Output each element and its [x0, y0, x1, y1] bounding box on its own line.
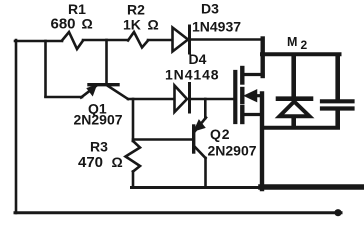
wire bottom long rail: [15, 211, 341, 214]
wire Q2 base horizontal: [133, 138, 192, 141]
diode freewheel top lead: [291, 56, 296, 95]
resistor R3: [126, 141, 141, 172]
wire Q2 collector vertical: [204, 158, 207, 187]
transistor Q1: [81, 40, 128, 99]
wire emitter horizontal: [46, 96, 83, 99]
diode D3: [173, 26, 190, 53]
svg-text:Ω: Ω: [148, 17, 159, 33]
mosfet M2: [235, 68, 263, 122]
wire source vertical: [260, 94, 264, 190]
wire top rail left segment: [15, 40, 62, 43]
wire thick bottom right rail: [261, 184, 364, 190]
wire junction drop to R3: [132, 99, 135, 141]
svg-text:2N2907: 2N2907: [74, 112, 123, 128]
diode freewheel: [278, 99, 311, 117]
capacitor C: [322, 101, 353, 108]
wire left vertical rail: [15, 40, 18, 213]
svg-text:2N2907: 2N2907: [208, 143, 257, 159]
svg-text:2: 2: [301, 38, 308, 52]
wire gate horizontal D4 to gate: [191, 98, 233, 101]
diode freewheel bottom lead: [291, 117, 296, 127]
svg-text:1N4937: 1N4937: [192, 19, 241, 35]
svg-text:680: 680: [51, 16, 76, 33]
svg-text:Ω: Ω: [82, 16, 93, 32]
wire top rail D3 to drain corner: [191, 38, 263, 41]
svg-text:Ω: Ω: [112, 154, 123, 170]
label M2: [287, 35, 308, 52]
svg-text:M: M: [287, 35, 297, 49]
svg-text:D3: D3: [201, 1, 219, 17]
wire bottom mid rail: [132, 186, 263, 189]
wire snubber top rail: [262, 52, 340, 56]
label 680 ohm: [51, 16, 93, 33]
resistor R1: [62, 32, 83, 49]
label 470 ohm: [78, 154, 123, 171]
wire drain vertical: [261, 39, 265, 77]
svg-text:D4: D4: [189, 51, 207, 67]
wire collector row to D4: [128, 98, 174, 101]
capacitor top lead: [335, 56, 340, 99]
wire R3 bottom vertical: [132, 172, 135, 187]
svg-text:R3: R3: [90, 139, 108, 155]
svg-text:R2: R2: [127, 2, 145, 18]
diode D4: [175, 84, 190, 113]
svg-text:1N4148: 1N4148: [165, 67, 219, 83]
transistor Q2: [194, 118, 206, 159]
svg-text:1K: 1K: [123, 17, 141, 33]
wire snubber bottom rail: [262, 126, 338, 130]
svg-text:Q2: Q2: [210, 126, 230, 142]
wire top rail R2 to D3: [148, 39, 172, 42]
label 1K ohm: [123, 17, 159, 33]
wire Q2 emitter vertical: [204, 99, 207, 118]
wire emitter branch vertical: [44, 41, 47, 97]
capacitor bottom lead: [335, 109, 340, 127]
node junction dot: [334, 209, 341, 216]
resistor R2: [128, 32, 148, 48]
wire top rail R1 to R2: [83, 39, 128, 42]
svg-text:470: 470: [78, 154, 103, 171]
